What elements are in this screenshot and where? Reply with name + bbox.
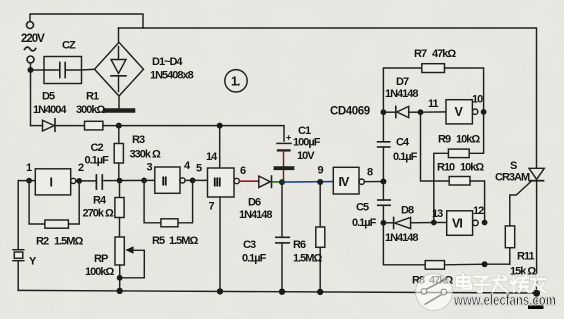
node gate I input	[26, 178, 32, 184]
label D8	[401, 205, 414, 217]
inverter V	[446, 100, 478, 124]
svg-text:1.5MΩ: 1.5MΩ	[54, 236, 83, 248]
thyristor S CR3AM	[529, 168, 544, 293]
svg-text:D5: D5	[42, 91, 55, 103]
label D7	[396, 76, 409, 88]
svg-text:6: 6	[240, 165, 246, 177]
svg-text:D1~D4: D1~D4	[152, 56, 183, 68]
svg-text:CZ: CZ	[62, 40, 76, 52]
label C1	[298, 125, 311, 137]
label 10V	[297, 150, 315, 162]
label R5 1.5M ohm	[152, 235, 198, 247]
wire C2 to gate II input	[104, 179, 155, 181]
wire bridge top to rail	[118, 28, 120, 42]
wire top rail to SCR anode	[119, 28, 537, 168]
node pin 12 junction	[482, 220, 488, 226]
label R11	[517, 251, 534, 263]
wire gate IV out to C4C5 node	[364, 181, 383, 183]
capacitor C4	[378, 112, 390, 181]
svg-text:0.1µF: 0.1µF	[393, 151, 418, 163]
wire gate I out to C2	[76, 180, 95, 182]
label pin 11	[428, 98, 439, 110]
terminal 220V bottom	[27, 56, 34, 63]
wire node A to CZ	[31, 69, 45, 71]
svg-text:R3: R3	[132, 134, 145, 146]
resistor R6	[316, 182, 325, 292]
svg-text:330k Ω: 330k Ω	[130, 149, 162, 161]
inverter I	[35, 169, 76, 195]
terminal 220V top	[27, 22, 34, 29]
ground bar bottom right	[528, 293, 544, 309]
label R6	[293, 239, 306, 251]
node gate II input	[141, 178, 147, 184]
label pin 2	[78, 162, 84, 174]
svg-text:1.5MΩ: 1.5MΩ	[293, 253, 322, 265]
wire pin 7 to bottom rail	[219, 197, 221, 292]
watermark text dianzifashaoyou (drawn strokes)	[457, 274, 546, 292]
resistor R1	[85, 121, 103, 130]
svg-text:1.: 1.	[231, 75, 240, 89]
inverter IV	[333, 167, 364, 194]
inverter III	[208, 168, 240, 197]
label RP	[94, 253, 108, 265]
resistor R9	[434, 112, 484, 223]
node pin 10 junction	[481, 109, 487, 115]
svg-text:1.5MΩ: 1.5MΩ	[169, 235, 198, 247]
label 1N4148 D6	[239, 209, 272, 221]
svg-text:C5: C5	[356, 202, 369, 214]
svg-text:47kΩ: 47kΩ	[432, 48, 456, 60]
node D8 left junction	[381, 220, 387, 226]
resistor R5 feedback loop	[144, 180, 193, 226]
svg-text:R4: R4	[93, 195, 107, 207]
svg-text:R6: R6	[293, 239, 306, 251]
label pin 3	[147, 162, 153, 174]
svg-text:R1: R1	[86, 91, 99, 103]
label C2	[91, 142, 104, 154]
label 100k ohm	[85, 266, 114, 278]
node pin 13 junction	[431, 220, 437, 226]
node A junction	[28, 67, 34, 73]
label pin 10	[472, 94, 483, 106]
svg-text:100µF: 100µF	[293, 137, 321, 149]
svg-text:9: 9	[318, 165, 324, 177]
label C5	[356, 202, 369, 214]
svg-text:2: 2	[78, 162, 84, 174]
svg-text:R5: R5	[152, 235, 165, 247]
capacitor C1 polarized	[276, 133, 293, 183]
svg-text:R11: R11	[517, 251, 534, 263]
svg-text:1: 1	[26, 162, 32, 174]
node rail pin7	[217, 288, 223, 294]
label CR3AM	[495, 172, 530, 184]
label 300k ohm	[76, 104, 105, 116]
label pin 9	[318, 165, 324, 177]
svg-text:CR3AM: CR3AM	[495, 172, 530, 184]
node R8 R11 junction	[482, 261, 488, 267]
svg-text:10kΩ: 10kΩ	[460, 162, 484, 174]
svg-text:7: 7	[209, 201, 215, 213]
resistor R10	[421, 112, 485, 222]
label pin 4	[184, 160, 191, 172]
label 1N5408x8	[150, 70, 194, 82]
label R4	[93, 195, 107, 207]
svg-text:5: 5	[196, 163, 202, 175]
label S	[510, 160, 517, 172]
svg-text:0.1µF: 0.1µF	[352, 217, 377, 229]
svg-text:220V: 220V	[21, 33, 45, 45]
label 100uF	[293, 137, 321, 149]
resistor R7	[383, 64, 483, 112]
ground under bridge	[106, 96, 134, 111]
node D7 left junction	[381, 109, 387, 115]
wire node A down to D5	[31, 125, 43, 127]
label pin 6	[240, 165, 246, 177]
wire CZ to bridge	[82, 68, 95, 71]
svg-text:1N4148: 1N4148	[385, 88, 418, 100]
label R9 10k ohm	[438, 134, 480, 146]
label pin 8	[367, 167, 373, 179]
svg-text:1N4148: 1N4148	[385, 232, 418, 244]
label 15k ohm	[510, 266, 536, 278]
node pin 11 junction	[418, 109, 424, 115]
label 0.1uF C2	[85, 155, 110, 167]
node pin 9 junction	[317, 179, 323, 185]
node rail RP	[117, 288, 123, 294]
label R3	[132, 134, 145, 146]
svg-text:13: 13	[432, 208, 443, 220]
wire R8 node to R11	[485, 263, 510, 265]
label pin 7	[209, 201, 215, 213]
label R8 47k ohm	[412, 275, 453, 287]
label pin 5	[196, 163, 202, 175]
label D5	[42, 91, 55, 103]
node gate II output	[190, 178, 196, 184]
capacitor C2	[96, 175, 102, 189]
label ~	[25, 47, 36, 51]
wire pin14	[219, 126, 221, 168]
label 270k ohm	[83, 208, 115, 220]
node R3 top junction	[116, 123, 122, 129]
node rail SCR restamp	[533, 290, 540, 297]
diode D6	[259, 176, 272, 187]
svg-text:S: S	[510, 160, 517, 172]
diode D7	[383, 106, 420, 117]
svg-text:D6: D6	[248, 197, 261, 209]
svg-text:10V: 10V	[297, 150, 315, 162]
svg-text:RP: RP	[94, 253, 108, 265]
node rail C3	[279, 289, 285, 295]
label 1N4148 D8	[385, 232, 418, 244]
node pin 8 junction	[380, 179, 386, 185]
node RP wiper junction	[117, 275, 123, 281]
svg-text:10: 10	[472, 94, 483, 106]
svg-text:100kΩ: 100kΩ	[85, 266, 114, 278]
svg-text:10kΩ: 10kΩ	[456, 134, 480, 146]
svg-text:II: II	[162, 175, 167, 189]
label D6	[248, 197, 261, 209]
svg-text:8: 8	[367, 167, 373, 179]
diode D5	[43, 119, 56, 132]
svg-text:270k Ω: 270k Ω	[83, 208, 115, 220]
svg-text:R2: R2	[36, 236, 49, 248]
bottom rail	[18, 290, 536, 293]
watermark text www.elecfans.com	[453, 292, 556, 309]
svg-text:C2: C2	[91, 142, 104, 154]
svg-text:12: 12	[473, 205, 484, 217]
label CZ	[62, 40, 76, 52]
potentiometer RP	[115, 237, 144, 291]
node rail R6	[317, 289, 323, 295]
bridge rectifier D1-D4	[95, 42, 144, 96]
crystal Y	[13, 181, 24, 291]
wire pin13 to gate VI	[434, 222, 447, 224]
label 1N4148 D7	[385, 88, 418, 100]
label 1.5M ohm R6	[293, 253, 322, 265]
wire gate II out to gate III	[185, 179, 207, 181]
label pin 1	[26, 162, 32, 174]
watermark logo circle	[416, 274, 453, 311]
wire green D6 to junction	[272, 181, 282, 183]
svg-text:D8: D8	[401, 205, 414, 217]
node R4 C2 junction	[117, 178, 123, 184]
label 1N4004	[33, 104, 67, 116]
svg-text:1N4004: 1N4004	[33, 104, 67, 116]
node rail SCR	[533, 290, 540, 297]
label C4	[396, 137, 410, 149]
svg-text:0.1µF: 0.1µF	[85, 155, 110, 167]
svg-text:3: 3	[147, 162, 153, 174]
label 14	[206, 151, 218, 163]
label R7 47k ohm	[414, 48, 456, 60]
node gate I output	[76, 178, 82, 184]
node pin14 junction	[217, 123, 223, 129]
node D6 C1 C3 junction	[279, 179, 285, 185]
svg-text:C3: C3	[243, 239, 256, 251]
svg-text:D7: D7	[396, 76, 409, 88]
svg-text:1N5408x8: 1N5408x8	[150, 70, 194, 82]
inverter VI	[447, 211, 479, 236]
capacitor C5	[378, 182, 391, 223]
label 0.1uF C3	[242, 253, 267, 265]
resistor R4	[115, 181, 124, 237]
svg-text:CD4069: CD4069	[330, 106, 370, 118]
label R10 10k ohm	[437, 162, 484, 174]
wire crystal to gate I input	[18, 180, 35, 182]
wire red gate III out to D6	[239, 180, 258, 182]
label 330k ohm	[130, 149, 162, 161]
svg-text:11: 11	[428, 98, 439, 110]
svg-text:C1: C1	[298, 125, 311, 137]
label R2 1.5M ohm	[36, 236, 83, 248]
label C3	[243, 239, 256, 251]
label pin 12	[473, 205, 484, 217]
svg-text:300kΩ: 300kΩ	[76, 104, 105, 116]
wire top rail from terminal	[30, 14, 143, 28]
wire DC bus to C1	[103, 126, 284, 141]
svg-text:+: +	[286, 133, 291, 143]
wire pin11 to gate V	[421, 111, 447, 113]
resistor R2 feedback loop	[29, 181, 79, 229]
wire D5 to R1	[55, 125, 85, 127]
svg-text:R9: R9	[438, 134, 451, 146]
resistor R11	[505, 182, 531, 265]
label 0.1uF C5	[352, 217, 377, 229]
svg-text:R10: R10	[437, 162, 455, 174]
svg-text:VI: VI	[452, 217, 462, 231]
svg-text:www.elecfans.com: www.elecfans.com	[453, 292, 556, 309]
capacitor C3	[276, 182, 290, 292]
label D1~D4	[152, 56, 183, 68]
svg-text:R7: R7	[414, 48, 427, 60]
inverter II	[155, 167, 185, 193]
label R1	[86, 91, 99, 103]
wire terminal to node A	[30, 63, 32, 126]
svg-text:1N4148: 1N4148	[239, 209, 272, 221]
diode D8	[383, 217, 433, 228]
label CD4069	[330, 106, 370, 118]
figure number circle 1	[225, 70, 247, 92]
capacitor CZ	[44, 57, 82, 84]
resistor R8	[383, 223, 484, 269]
label 220V	[21, 33, 45, 45]
svg-text:III: III	[213, 176, 221, 190]
resistor R3	[114, 126, 123, 181]
svg-text:IV: IV	[339, 175, 350, 189]
label Y	[29, 256, 37, 268]
wire blue to gate IV	[282, 181, 333, 184]
label pin 13	[432, 208, 443, 220]
label 0.1uF C4	[393, 151, 418, 163]
svg-text:0.1µF: 0.1µF	[242, 253, 267, 265]
svg-text:C4: C4	[396, 137, 410, 149]
